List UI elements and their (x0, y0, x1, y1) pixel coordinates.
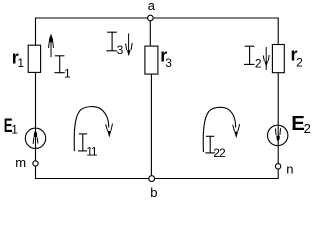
svg-text:a: a (148, 0, 156, 13)
wire middle vertical (a to r3) (149, 18, 151, 46)
wire bottom horizontal (35, 178, 279, 180)
loop current I22 arc arrow (203, 107, 239, 152)
wire right vertical (n to bottom corner) (277, 169, 279, 179)
current I1 label (54, 56, 71, 81)
node n (275, 164, 280, 169)
svg-text:1: 1 (64, 66, 71, 80)
svg-text:m: m (15, 155, 26, 170)
wire middle vertical (r3 to b) (150, 74, 152, 179)
node m (33, 161, 38, 166)
wire right vertical top (corner to r2) (277, 18, 279, 45)
wire left vertical (m to bottom corner) (35, 166, 37, 179)
label r2 (291, 44, 304, 69)
node a (148, 15, 154, 21)
loop current I11 arc arrow (74, 107, 112, 152)
source E1 circle (25, 128, 45, 148)
node b (149, 176, 155, 182)
svg-text:3: 3 (165, 56, 172, 70)
label r1 (12, 47, 25, 70)
svg-text:2: 2 (255, 56, 262, 70)
current I3 label (106, 32, 123, 57)
svg-text:n: n (286, 162, 293, 177)
svg-text:1: 1 (11, 122, 18, 136)
current I2 arrow (down) (263, 47, 269, 70)
wire left vertical top (corner to r1) (35, 18, 37, 46)
svg-text:2: 2 (304, 121, 311, 136)
resistor r1 (28, 45, 40, 72)
source E2 arrow (down) (275, 128, 280, 142)
resistor r3 (145, 46, 158, 74)
svg-text:2: 2 (296, 55, 303, 69)
label r3 (160, 45, 172, 70)
loop current I11 label (78, 134, 98, 159)
source E1 arrow (up) (33, 130, 38, 144)
svg-text:22: 22 (213, 146, 226, 160)
svg-text:1: 1 (17, 56, 24, 70)
label E2 (291, 112, 311, 136)
label E1 (4, 115, 18, 137)
current I2 label (244, 46, 262, 70)
current I3 arrow (down) (126, 34, 133, 57)
source E2 circle (268, 125, 288, 145)
svg-text:b: b (150, 185, 157, 199)
loop current I22 label (205, 136, 226, 160)
svg-text:1: 1 (91, 144, 98, 158)
wire left vertical (r1 to E1 to m) (35, 72, 37, 161)
resistor r2 (272, 45, 284, 73)
svg-text:3: 3 (117, 43, 124, 57)
wire right vertical (r2 to E2 to n) (277, 72, 279, 163)
wire top horizontal a-line (35, 17, 279, 19)
current I1 arrow (up) (49, 34, 54, 58)
